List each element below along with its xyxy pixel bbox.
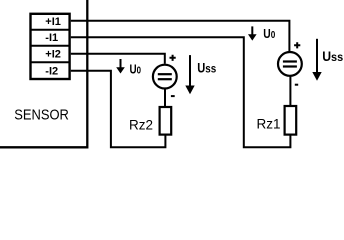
svg-text:Rz2: Rz2 <box>129 118 153 133</box>
sensor box outline <box>0 0 87 147</box>
arrow Uss left <box>185 55 194 94</box>
terminal divider 2 <box>31 45 70 47</box>
svg-text:+I1: +I1 <box>45 16 61 28</box>
svg-text:U0: U0 <box>263 27 275 41</box>
voltage source G1 bars <box>283 60 297 62</box>
plus mark left source <box>170 55 176 61</box>
voltage source G2 bars <box>158 73 172 75</box>
svg-text:-I1: -I1 <box>45 32 58 44</box>
svg-text:-I2: -I2 <box>45 66 58 78</box>
wire +I2 to left voltage source top <box>71 54 165 64</box>
wire left source to Rz2 <box>164 89 166 108</box>
svg-text:Rz1: Rz1 <box>257 117 281 132</box>
terminal block outline <box>31 14 70 79</box>
svg-text:SENSOR: SENSOR <box>14 107 69 124</box>
wire +I1 to right voltage source top <box>71 21 290 51</box>
arrow Uss right <box>312 39 321 81</box>
svg-text:U0: U0 <box>130 62 142 76</box>
wire right source to Rz1 <box>289 76 291 106</box>
terminal divider 3 <box>31 61 70 63</box>
resistor Rz2 <box>160 107 172 135</box>
svg-text:+I2: +I2 <box>45 49 61 61</box>
plus mark right source <box>294 42 300 48</box>
minus mark right source <box>295 84 298 86</box>
terminal divider 1 <box>31 29 70 31</box>
wire -I2 down and to Rz2 bottom <box>71 71 166 148</box>
voltage source G1 circle right <box>278 52 302 76</box>
arrow U0 left <box>116 59 125 74</box>
svg-text:Uss: Uss <box>322 49 343 64</box>
arrow U0 right <box>248 26 257 40</box>
voltage source G2 circle left <box>153 65 177 89</box>
svg-text:Uss: Uss <box>197 61 216 76</box>
resistor Rz1 <box>285 106 297 135</box>
wire -I1 down and to Rz1 bottom <box>71 37 291 147</box>
minus mark left source <box>171 95 175 97</box>
